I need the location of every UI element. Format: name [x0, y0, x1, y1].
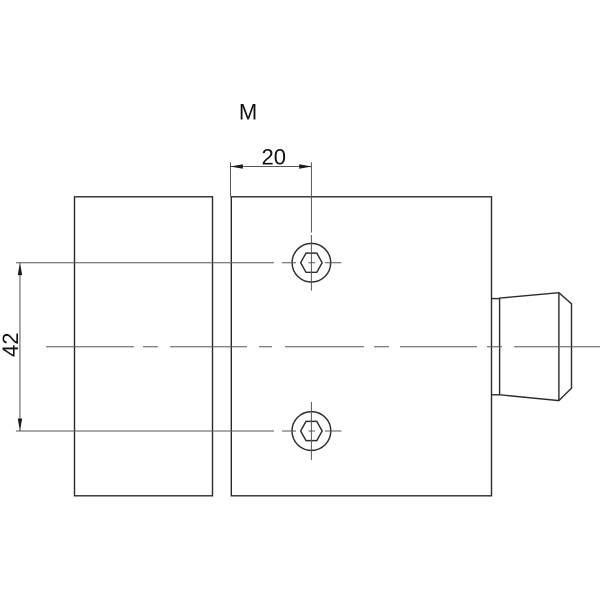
left block: [75, 197, 213, 496]
dim 42 bottom arrow: [18, 419, 23, 432]
svg-text:20: 20: [261, 145, 285, 170]
main horizontal centerline: [46, 346, 600, 348]
svg-text:M: M: [239, 100, 257, 125]
boss chamfer edge line: [558, 293, 560, 401]
dim 20 left extension line: [230, 162, 232, 197]
lower screw vertical centerline: [310, 402, 312, 460]
upper screw circle: [292, 243, 331, 282]
lower screw circle: [292, 412, 331, 451]
main block: [231, 197, 491, 496]
lower screw hex socket: [301, 421, 323, 440]
upper screw hex socket: [301, 253, 323, 272]
dim 20 line: [230, 166, 311, 168]
boss taper outline: [500, 293, 572, 401]
dim 42 top arrow: [18, 263, 23, 276]
dim 20 left arrow: [230, 164, 243, 169]
upper screw vertical centerline / 20 right extension: [310, 162, 312, 290]
upper screw horizontal centerline / 42 top extension: [16, 262, 342, 264]
boss neck band bottom edge: [492, 394, 500, 396]
dim 20 right arrow: [299, 164, 312, 169]
lower screw horizontal centerline / 42 bottom extension: [16, 430, 342, 432]
boss neck band top edge: [492, 298, 500, 300]
svg-text:42: 42: [0, 333, 23, 357]
dim 42 line: [19, 263, 21, 431]
